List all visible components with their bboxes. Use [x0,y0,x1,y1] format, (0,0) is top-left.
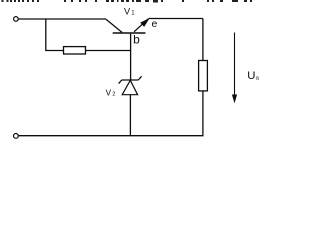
cropped text artifacts along top edge [2,0,253,3]
zener diode V2 [119,76,142,94]
svg-text:V: V [124,7,131,17]
svg-text:b: b [133,33,140,47]
label V2 [106,88,116,97]
arrow Ua (output voltage) [232,33,236,103]
transistor V1 [106,19,149,33]
svg-text:U: U [247,70,255,82]
label Ua [247,70,259,82]
output terminal (bottom-left) [14,134,19,139]
wire: branch down from top rail to R1 [45,19,47,51]
wire: zener anode down to bottom rail [129,95,131,136]
wire: top rail from input terminal to transistor collector [18,18,106,20]
resistor R1 [64,47,86,54]
wire: emitter rail to right branch [149,18,204,20]
wire: base lead down to zener cathode [130,34,132,80]
svg-text:V: V [106,88,112,97]
svg-text:2: 2 [112,92,115,98]
wire: right branch upper segment [202,19,204,61]
wire: right branch lower segment [202,91,204,136]
label V1 [124,7,135,17]
svg-text:e: e [152,18,158,30]
resistor load (right) [199,61,208,91]
wire: to R1 left terminal [45,50,63,52]
input terminal (top-left) [14,17,19,22]
wire: bottom rail [18,135,203,137]
wire: R1 right terminal to base node [86,50,131,52]
